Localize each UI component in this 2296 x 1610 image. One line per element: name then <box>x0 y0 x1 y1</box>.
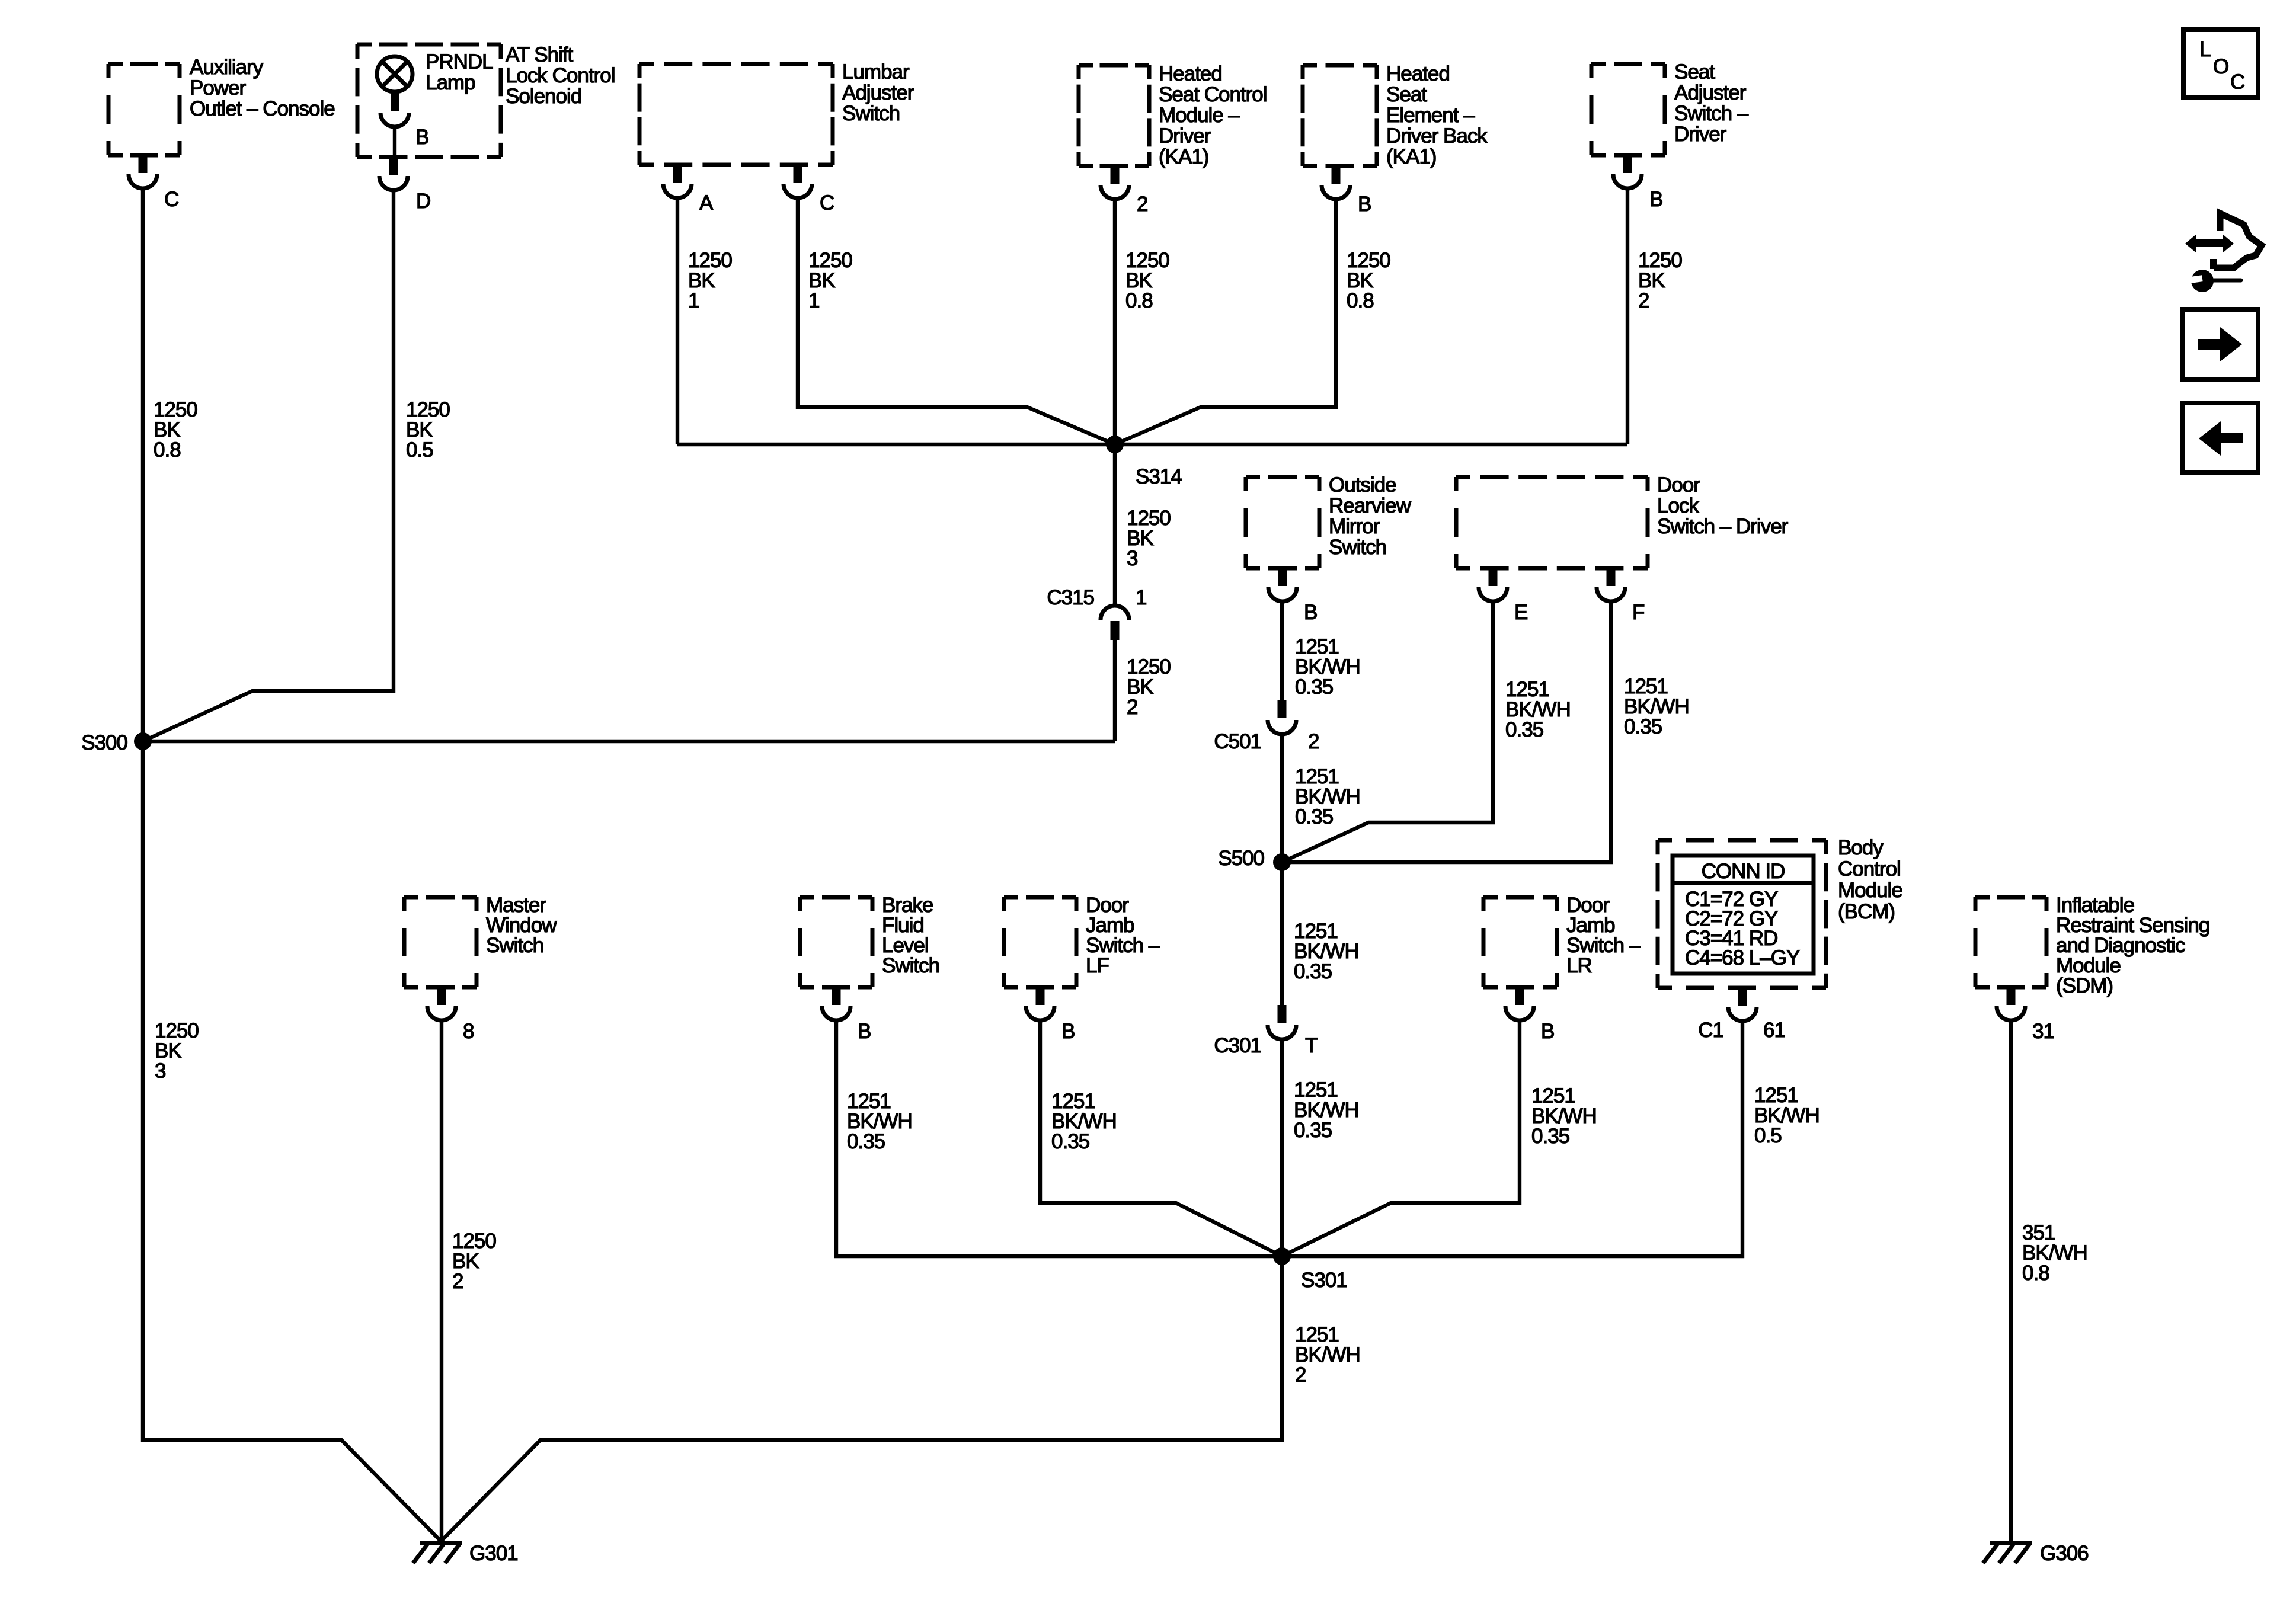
svg-text:S300: S300 <box>81 731 127 754</box>
inline connector C501 pin 2 <box>1214 700 1319 753</box>
svg-text:(BCM): (BCM) <box>1838 900 1895 923</box>
svg-text:Switch: Switch <box>842 102 900 125</box>
splice node S300 <box>81 731 152 754</box>
svg-text:(KA1): (KA1) <box>1386 145 1436 168</box>
component: Inflatable Restraint Sensing and Diagnostic Module SDM (dashed box) <box>1975 894 2209 997</box>
svg-text:0.5: 0.5 <box>1754 1124 1782 1147</box>
svg-text:Adjuster: Adjuster <box>1674 81 1747 104</box>
svg-text:Driver: Driver <box>1674 123 1727 146</box>
wire 1250 BK 3 from S314 to C315 <box>1113 444 1117 606</box>
component: Lumbar Adjuster Switch (dashed box) <box>639 60 914 165</box>
svg-text:(SDM): (SDM) <box>2056 974 2113 997</box>
svg-text:31: 31 <box>2032 1020 2054 1043</box>
svg-text:B: B <box>1649 188 1662 211</box>
svg-text:0.8: 0.8 <box>1347 289 1374 312</box>
svg-text:Rearview: Rearview <box>1329 494 1412 517</box>
wire 1251 BK/WH 0.35 from Door Lock pin E to S500 <box>1282 601 1493 862</box>
svg-text:1: 1 <box>1136 586 1146 609</box>
pin B connector of PRNDL Lamp (inside box) <box>380 93 428 149</box>
svg-text:Outlet – Console: Outlet – Console <box>190 97 335 120</box>
wire 1250 BK 2 from Master Window Switch pin 8 to ground G301 <box>440 1020 443 1541</box>
wire 1251 BK/WH 0.35 from Mirror Switch pin B to C501 <box>1280 601 1284 700</box>
svg-text:Lumbar: Lumbar <box>842 60 910 84</box>
PRNDL Lamp symbol <box>377 50 493 94</box>
svg-text:C: C <box>164 188 178 211</box>
svg-text:Door: Door <box>1657 473 1700 497</box>
svg-text:B: B <box>1304 601 1317 624</box>
svg-text:Element –: Element – <box>1386 104 1475 127</box>
component: Door Jamb Switch - LF (dashed box) <box>1004 894 1160 987</box>
wire 1251 BK/WH 0.35 from Door Jamb Switch LF pin B to S301 <box>1040 1020 1282 1256</box>
svg-text:Lock Control: Lock Control <box>506 64 615 87</box>
component: Body Control Module BCM (dashed box) <box>1658 836 1902 988</box>
wire 1251 BK/WH 0.35 from Brake Fluid Level Switch pin B to S301 <box>836 1020 1282 1256</box>
svg-text:E: E <box>1514 601 1527 624</box>
wire 1250 BK 1 from Lumbar pin C to S314 <box>798 198 1115 444</box>
svg-text:0.35: 0.35 <box>1294 1119 1332 1142</box>
svg-text:C4=68 L–GY: C4=68 L–GY <box>1685 946 1800 969</box>
BCM CONN ID table <box>1673 856 1814 974</box>
svg-text:A: A <box>699 191 714 215</box>
pin C connector of Lumbar Adjuster Switch <box>784 164 834 215</box>
wire 1250 BK 1 from Lumbar pin A to S314 <box>676 198 679 444</box>
svg-text:Heated: Heated <box>1386 62 1450 85</box>
svg-text:2: 2 <box>1127 696 1137 719</box>
pin B connector of Door Jamb Switch LF <box>1026 986 1075 1043</box>
svg-text:0.35: 0.35 <box>1531 1125 1569 1148</box>
svg-text:Mirror: Mirror <box>1329 515 1380 538</box>
svg-text:61: 61 <box>1763 1019 1785 1042</box>
component: Door Jamb Switch - LR (dashed box) <box>1483 894 1641 987</box>
component: Heated Seat Control Module - Driver (KA1) (dashed box) <box>1079 62 1267 168</box>
pin C1 61 connector of BCM <box>1698 987 1785 1042</box>
svg-text:0.35: 0.35 <box>1295 676 1333 699</box>
splice node S301 <box>1273 1247 1347 1292</box>
svg-text:0.8: 0.8 <box>154 438 181 462</box>
svg-text:F: F <box>1632 601 1644 624</box>
svg-text:Solenoid: Solenoid <box>506 85 581 108</box>
icon: left arrow box <box>2183 403 2258 473</box>
svg-text:2: 2 <box>1295 1363 1306 1387</box>
svg-text:O: O <box>2213 55 2228 78</box>
svg-text:C301: C301 <box>1214 1034 1261 1057</box>
component: Seat Adjuster Switch - Driver (dashed box) <box>1591 60 1749 155</box>
pin A connector of Lumbar Adjuster Switch <box>663 164 714 215</box>
svg-text:Seat Control: Seat Control <box>1159 83 1267 106</box>
svg-text:AT Shift: AT Shift <box>506 43 574 66</box>
LOC legend box <box>2183 30 2258 98</box>
splice node S314 <box>1106 436 1182 488</box>
svg-text:2: 2 <box>1638 289 1649 312</box>
svg-text:0.5: 0.5 <box>406 438 433 462</box>
svg-text:2: 2 <box>452 1270 463 1293</box>
svg-text:Switch – Driver: Switch – Driver <box>1657 515 1789 538</box>
wire 1250 BK 0.8 from Heated Seat Control Module pin 2 to S314 <box>1113 199 1117 444</box>
svg-text:0.8: 0.8 <box>2022 1262 2049 1285</box>
wire 1250 BK 3 from S300 to ground G301 <box>143 741 441 1541</box>
svg-text:0.35: 0.35 <box>1505 718 1543 741</box>
svg-text:G306: G306 <box>2040 1542 2089 1565</box>
svg-text:L: L <box>2199 38 2211 61</box>
wire 1251 BK/WH 0.35 from S500 to C301 <box>1280 862 1284 1005</box>
svg-text:Driver Back: Driver Back <box>1386 124 1488 148</box>
svg-text:Body: Body <box>1838 836 1884 859</box>
svg-text:LR: LR <box>1566 954 1592 977</box>
svg-text:B: B <box>1541 1020 1554 1043</box>
svg-text:B: B <box>415 126 428 149</box>
svg-text:0.8: 0.8 <box>1125 289 1153 312</box>
svg-text:Control: Control <box>1838 857 1901 881</box>
svg-text:Switch –: Switch – <box>1674 102 1749 125</box>
svg-text:Seat: Seat <box>1386 83 1427 106</box>
wire 1250 BK 2 from Seat Adjuster Switch pin B to S314 <box>1626 188 1629 444</box>
inline connector C301 pin T <box>1214 1005 1318 1057</box>
svg-text:C: C <box>820 191 834 215</box>
svg-text:Module –: Module – <box>1159 104 1240 127</box>
pin D connector of AT Shift Lock Control Solenoid <box>379 156 430 213</box>
pin F connector of Door Lock Switch <box>1597 567 1644 624</box>
wire 1251 BK/WH 0.5 from BCM pin 61 to S301 <box>1282 1021 1742 1256</box>
svg-text:B: B <box>1061 1020 1075 1043</box>
wire: S300 horizontal bus <box>143 740 1115 743</box>
svg-text:C: C <box>2230 71 2244 94</box>
wire: lamp B to box edge <box>393 127 396 158</box>
pin E connector of Door Lock Switch <box>1479 567 1527 624</box>
svg-text:PRNDL: PRNDL <box>426 50 493 73</box>
svg-text:Heated: Heated <box>1159 62 1222 85</box>
svg-text:Driver: Driver <box>1159 124 1211 148</box>
svg-text:C315: C315 <box>1047 586 1094 609</box>
component: AT Shift Lock Control Solenoid (dashed box) <box>357 43 615 157</box>
svg-text:8: 8 <box>463 1020 474 1043</box>
wire 1250 BK 2 from C315 to S300 <box>1113 640 1117 741</box>
svg-text:S500: S500 <box>1218 847 1264 870</box>
pin B connector of Outside Rearview Mirror Switch <box>1268 567 1317 624</box>
svg-text:T: T <box>1305 1034 1318 1057</box>
svg-text:B: B <box>858 1020 871 1043</box>
component: Heated Seat Element - Driver Back (KA1) (dashed box) <box>1303 62 1488 168</box>
svg-text:Lamp: Lamp <box>426 71 475 94</box>
wire: S314 horizontal bus <box>677 443 1627 446</box>
wire 1251 BK/WH 2 from S301 to ground G301 <box>441 1256 1282 1541</box>
svg-text:Outside: Outside <box>1329 473 1396 497</box>
svg-text:0.35: 0.35 <box>1624 715 1662 738</box>
svg-text:1: 1 <box>808 289 819 312</box>
svg-text:Adjuster: Adjuster <box>842 81 914 104</box>
component: Outside Rearview Mirror Switch (dashed box) <box>1246 473 1412 568</box>
svg-text:Seat: Seat <box>1674 60 1715 84</box>
icon: right arrow box <box>2183 309 2258 379</box>
svg-text:G301: G301 <box>469 1542 518 1565</box>
svg-text:Switch: Switch <box>1329 536 1386 559</box>
pin B connector of Heated Seat Element <box>1322 165 1371 216</box>
component: Auxiliary Power Outlet - Console (dashed box) <box>108 56 335 155</box>
svg-text:D: D <box>416 190 430 213</box>
svg-text:0.35: 0.35 <box>1294 960 1332 983</box>
pin C connector of Auxiliary Power Outlet <box>129 154 178 211</box>
svg-text:3: 3 <box>1127 547 1137 570</box>
wire 1251 BK/WH 0.35 from C501 to S500 <box>1280 734 1284 862</box>
svg-text:2: 2 <box>1137 193 1147 216</box>
wire 1250 BK 0.5 from PRNDL pin D to S300 <box>143 190 394 741</box>
svg-text:(KA1): (KA1) <box>1159 145 1208 168</box>
wire 1250 BK 0.8 from Auxiliary Power Outlet pin C to S300 <box>141 188 145 741</box>
ground G301 <box>413 1541 518 1565</box>
svg-text:C501: C501 <box>1214 730 1261 753</box>
wire 1250 BK 0.8 from Heated Seat Element pin B to S314 <box>1115 199 1336 444</box>
pin B connector of Brake Fluid Level Switch <box>822 986 871 1043</box>
svg-text:1: 1 <box>688 289 699 312</box>
pin 2 connector of Heated Seat Control Module <box>1101 165 1147 216</box>
pin 31 connector of SDM <box>1997 986 2054 1043</box>
svg-text:C1: C1 <box>1698 1019 1723 1042</box>
svg-text:CONN ID: CONN ID <box>1702 860 1785 883</box>
pin B connector of Door Jamb Switch LR <box>1505 986 1554 1043</box>
svg-text:B: B <box>1358 193 1371 216</box>
svg-text:Switch: Switch <box>882 954 939 977</box>
component: Brake Fluid Level Switch (dashed box) <box>800 894 939 987</box>
wire 351 BK/WH 0.8 from SDM pin 31 to ground G306 <box>2009 1020 2013 1541</box>
svg-text:0.35: 0.35 <box>1295 805 1333 828</box>
wire 1251 BK/WH 0.35 from Door Jamb Switch LR pin B to S301 <box>1282 1020 1520 1256</box>
svg-text:2: 2 <box>1308 730 1319 753</box>
wire 1251 BK/WH 0.35 from Door Lock pin F to S500 <box>1282 601 1611 862</box>
inline connector C315 pin 1 <box>1047 586 1146 640</box>
pin B connector of Seat Adjuster Switch <box>1613 154 1662 211</box>
svg-text:S314: S314 <box>1136 465 1182 488</box>
svg-text:Power: Power <box>190 76 247 100</box>
wire 1251 BK/WH 0.35 from C301 to S301 <box>1280 1039 1284 1256</box>
pin 8 connector of Master Window Switch <box>427 986 474 1043</box>
svg-text:S301: S301 <box>1301 1269 1347 1292</box>
svg-text:Switch: Switch <box>486 934 543 957</box>
svg-text:Module: Module <box>1838 879 1902 902</box>
component: Door Lock Switch - Driver (dashed box) <box>1456 473 1789 568</box>
svg-text:LF: LF <box>1086 954 1109 977</box>
icon: vehicle body with double arrow and wrench <box>2185 213 2262 292</box>
ground G306 <box>1983 1541 2089 1565</box>
svg-text:Auxiliary: Auxiliary <box>190 56 264 79</box>
component: Master Window Switch (dashed box) <box>404 894 557 987</box>
svg-text:3: 3 <box>155 1060 165 1083</box>
svg-text:0.35: 0.35 <box>847 1130 885 1153</box>
svg-text:Lock: Lock <box>1657 494 1699 517</box>
svg-text:0.35: 0.35 <box>1051 1130 1089 1153</box>
splice node S500 <box>1218 847 1291 871</box>
